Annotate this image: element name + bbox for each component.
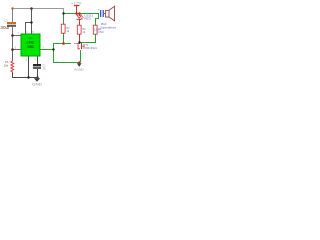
capacitor C3 top plate [33, 64, 41, 66]
wire below zigzag [12, 72, 13, 78]
node LED junction [78, 12, 80, 14]
node +12V junction [75, 12, 77, 14]
svg-text:555: 555 [27, 45, 33, 49]
svg-text:GND: GND [32, 83, 43, 87]
wire LED to R2 [79, 19, 80, 25]
wire pin 7 [12, 35, 21, 36]
wire R2 to node [79, 34, 80, 42]
capacitor C1 30uf top plate [7, 22, 16, 24]
ground AGND [77, 63, 82, 67]
capacitor C1 30uf bottom plate [7, 25, 16, 27]
resistor R4 [93, 25, 97, 34]
node C3 rail junction [36, 76, 38, 78]
ground GND [34, 78, 40, 82]
wire R1 top stub [63, 13, 64, 24]
wire output up jog [53, 43, 54, 49]
wire ground run y62 [53, 62, 79, 63]
wire R4 upper [95, 18, 96, 25]
resistor R2 [77, 25, 81, 34]
wire pin 8 [31, 22, 32, 34]
capacitor C2 plates [100, 10, 101, 17]
wire pin 4 [25, 22, 26, 34]
svg-text:+: + [98, 8, 100, 12]
svg-text:RED: RED [84, 16, 90, 20]
wire left column upper [12, 8, 13, 22]
resistor R5 zigzag [11, 60, 14, 73]
wire pin 2/6 [12, 49, 21, 50]
LED LED1 [77, 15, 82, 18]
wire grey corner to green rail [63, 8, 64, 13]
svg-text:AGND: AGND [74, 68, 84, 72]
svg-text:10k: 10k [4, 64, 9, 68]
wire node y43 [53, 43, 71, 44]
wire R4 jog [95, 18, 99, 19]
wire coupling cap to speaker [104, 13, 106, 14]
wire output pin 3 [40, 49, 53, 50]
wire C3 to ground rail [37, 69, 38, 78]
op-amp / timer IC1 LMC555 body [21, 34, 40, 56]
node rail corner junction [62, 12, 64, 14]
wire pin4/8 jog [25, 22, 32, 23]
wire left column lower [12, 49, 13, 61]
svg-text:out: out [55, 60, 59, 64]
node pin1 rail junction [27, 76, 29, 78]
node top-left corner [11, 7, 13, 9]
node output junction [52, 48, 54, 50]
node feed junction [30, 7, 33, 10]
node R1 bottom junction [62, 42, 65, 45]
power +12V terminal [74, 5, 80, 6]
svg-text:C2: C2 [5, 19, 9, 23]
wire node y42 horizontal [80, 42, 96, 43]
node pin4/8 junction [30, 21, 32, 23]
wire IC feed vertical [31, 8, 32, 23]
wire output down jog [53, 49, 54, 63]
wire bottom ground rail [12, 77, 38, 78]
svg-text:BF494: BF494 [85, 46, 97, 50]
wire pin 5 to C3 [37, 56, 38, 64]
capacitor C3 bottom plate [33, 67, 41, 69]
node pin 7 junction [11, 34, 14, 37]
wire top +12V rail [12, 8, 64, 9]
transistor T1 [78, 43, 80, 48]
wire emitter to ground [80, 50, 81, 62]
speaker SP1 [106, 10, 109, 17]
wire green +12V rail [63, 13, 99, 14]
wire R4 bottom stub [95, 34, 96, 42]
wire base lead [74, 43, 78, 44]
resistor R1 [61, 24, 65, 33]
svg-text:LMC: LMC [26, 40, 34, 44]
svg-text:+12V: +12V [71, 2, 83, 6]
svg-text:Speaker: Speaker [100, 26, 117, 30]
wire R1 bottom stub [63, 33, 64, 44]
wire pin 1 to ground rail [28, 56, 29, 77]
node ground junction [78, 61, 80, 63]
node collector junction [78, 41, 80, 43]
wire R4 top stub [98, 13, 99, 18]
svg-text:30uf: 30uf [0, 25, 10, 30]
svg-text:IC1: IC1 [28, 36, 33, 40]
wire LED anode stub [79, 13, 80, 16]
svg-text:.01: .01 [42, 67, 46, 70]
node pin 2/6 junction [11, 48, 14, 51]
wire left column mid [12, 27, 13, 49]
